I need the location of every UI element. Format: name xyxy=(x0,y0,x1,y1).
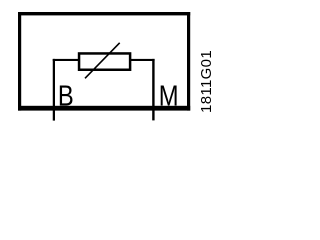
lead M (vertical terminal wire) xyxy=(152,59,154,121)
enclosure box top edge xyxy=(18,12,190,15)
resistor body R (potentiometer track) xyxy=(79,53,130,69)
enclosure box right edge xyxy=(187,12,190,111)
wire from resistor right to M lead xyxy=(131,59,155,61)
lead B (vertical terminal wire) xyxy=(53,59,55,121)
wire from B lead to resistor left xyxy=(53,59,79,61)
wiper diagonal line xyxy=(85,43,120,79)
svg-text:B: B xyxy=(58,79,74,112)
svg-text:M: M xyxy=(159,79,179,112)
svg-text:1811G01: 1811G01 xyxy=(198,50,215,113)
enclosure box left edge xyxy=(18,12,21,111)
enclosure box bottom edge xyxy=(18,106,190,111)
